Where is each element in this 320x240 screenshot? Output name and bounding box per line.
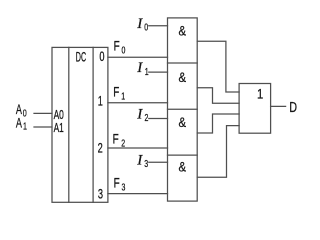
svg-text:I: I	[136, 60, 143, 76]
svg-text:DC: DC	[76, 50, 86, 65]
svg-text:2: 2	[98, 140, 103, 157]
or-gate U2 box	[239, 84, 271, 134]
svg-text:1: 1	[98, 92, 103, 109]
label F2	[113, 131, 126, 149]
wire I0	[149, 25, 168, 27]
label F3	[114, 175, 126, 193]
svg-text:&: &	[179, 114, 187, 131]
svg-text:2: 2	[145, 112, 149, 124]
svg-text:A1: A1	[54, 121, 64, 135]
wire D output	[271, 105, 286, 107]
and-gate column outer box	[168, 18, 198, 201]
wire gate1 output to OR input 1	[197, 41, 239, 92]
svg-text:3: 3	[122, 181, 126, 193]
wire F0	[108, 56, 168, 58]
svg-text:&: &	[179, 158, 187, 175]
label A0 external	[16, 101, 27, 119]
wire F1	[108, 102, 168, 104]
decoder divider 1	[68, 47, 70, 202]
svg-text:3: 3	[98, 186, 103, 203]
svg-text:F: F	[114, 38, 120, 54]
svg-text:I: I	[136, 16, 143, 32]
svg-text:1: 1	[121, 90, 125, 102]
svg-text:A: A	[16, 114, 22, 131]
label F1	[113, 84, 125, 102]
svg-text:0: 0	[122, 44, 126, 56]
svg-text:2: 2	[121, 137, 125, 149]
label I1	[136, 60, 149, 77]
svg-text:0: 0	[23, 107, 27, 119]
and-gate divider 3-4	[168, 154, 198, 156]
svg-text:F: F	[114, 175, 120, 191]
wire gate2 output to OR input 2	[197, 88, 239, 104]
svg-text:F: F	[113, 84, 119, 100]
svg-text:3: 3	[144, 158, 148, 170]
wire I2	[149, 118, 168, 120]
wire I1	[149, 71, 168, 73]
svg-text:F: F	[113, 131, 119, 147]
label F0	[114, 38, 126, 56]
label A1 external	[16, 114, 27, 132]
svg-text:1: 1	[257, 85, 263, 102]
wire gate4 output to OR input 4	[197, 126, 239, 178]
label I2	[136, 107, 148, 124]
and-gate divider 2-3	[168, 108, 198, 110]
svg-text:&: &	[179, 69, 187, 86]
wire F2	[108, 147, 168, 149]
svg-text:I: I	[136, 152, 143, 168]
label I3	[136, 152, 148, 169]
wire gate3 output to OR input 3	[197, 114, 239, 133]
svg-text:0: 0	[99, 48, 104, 65]
wire I3	[149, 161, 168, 163]
decoder divider 2	[92, 47, 94, 202]
wire A0 input	[34, 112, 52, 114]
and-gate divider 1-2	[168, 62, 198, 64]
svg-text:D: D	[289, 98, 297, 115]
decoder U1 box	[52, 47, 108, 202]
svg-text:1: 1	[23, 120, 27, 132]
svg-text:0: 0	[144, 21, 148, 33]
label I0	[136, 16, 148, 33]
svg-text:&: &	[179, 22, 187, 39]
svg-text:I: I	[136, 107, 143, 123]
wire A1 input	[34, 126, 52, 128]
wire F3	[108, 193, 168, 195]
svg-text:1: 1	[145, 66, 149, 78]
